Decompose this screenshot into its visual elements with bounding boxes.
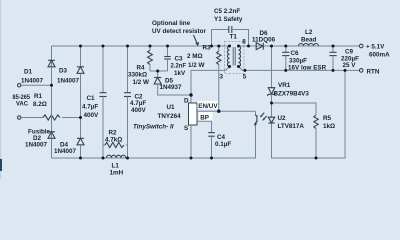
svg-text:8.2Ω: 8.2Ω [33,101,47,108]
wire: EN/UV line to optocoupler [197,110,256,112]
optocoupler U2 LED [268,103,274,123]
svg-text:1N4007: 1N4007 [54,148,77,155]
T1 secondary winding [239,46,241,66]
resistor R2 4.7k (parallel with L1) [103,130,128,158]
svg-text:Optional line: Optional line [152,20,191,27]
capacitor C5 2.2nF Y1 safety [212,8,249,46]
svg-text:D3: D3 [59,68,68,75]
svg-text:TNY264: TNY264 [158,113,182,120]
transformer T1 [191,33,247,95]
label 85-265 VAC [13,94,31,108]
svg-text:1N4007: 1N4007 [25,141,48,148]
inductor L1 1mH [107,155,126,176]
svg-text:330kΩ: 330kΩ [128,72,147,79]
resistor R3 2Mohm 1/2W (UV detect) [187,45,221,112]
T1 primary winding [227,46,229,66]
output terminal RTN [359,68,379,75]
svg-text:4.7µF: 4.7µF [82,104,98,111]
svg-text:EN/UV: EN/UV [198,103,218,110]
diode D5 1N4937 [154,71,191,95]
svg-text:R1: R1 [34,93,43,100]
capacitor C1 4.7uF 400V [82,46,107,158]
svg-text:U1: U1 [167,104,176,111]
svg-text:D: D [184,97,189,104]
capacitor C6 330uF 16V low ESR [282,46,326,72]
capacitor C4 0.1uF [208,133,231,158]
diode D4 1N4007 [54,118,84,159]
svg-text:400V: 400V [131,107,147,114]
svg-text:400V: 400V [84,112,100,119]
svg-text:1/2 W: 1/2 W [133,79,150,86]
svg-text:R5: R5 [323,115,332,122]
svg-text:1/2 W: 1/2 W [188,62,205,69]
svg-text:3: 3 [220,74,224,81]
IC U1 TinySwitch-II TNY264 [133,95,197,158]
svg-text:600mA: 600mA [369,52,390,59]
wire: secondary bottom rail [272,70,346,158]
svg-text:1mH: 1mH [110,170,124,177]
capacitor C9 220uF 25V [329,46,359,70]
svg-text:25 V: 25 V [343,62,357,69]
svg-text:C6: C6 [291,50,300,57]
svg-text:2.2nF: 2.2nF [171,62,187,69]
svg-text:1N4007: 1N4007 [21,77,44,84]
resistor R4 330k 1/2W [128,46,152,86]
svg-text:L1: L1 [112,162,120,169]
svg-text:0.1µF: 0.1µF [215,141,231,148]
diode D2 1N4007 [25,85,55,158]
wire: secondary output rail [239,45,360,47]
resistor R1 8.2ohm Fusible [28,93,60,135]
inductor L2 bead [299,29,319,46]
svg-text:5: 5 [243,74,247,81]
capacitor C3 2.2nF 1kV [164,46,186,77]
input terminal AC top [18,84,52,87]
wire: pin3 lead to drain [191,67,230,96]
wire: top DC+ rail (primary) [52,45,230,47]
light arrows [261,113,264,117]
svg-text:BZX79B4V3: BZX79B4V3 [274,90,310,97]
svg-text:C3: C3 [175,55,184,62]
svg-text:Y1 Safety: Y1 Safety [214,16,243,23]
svg-text:L2: L2 [305,29,313,36]
diode D3 1N4007 [57,46,84,118]
svg-text:R2: R2 [109,130,118,137]
svg-text:T1: T1 [230,33,238,40]
svg-text:U2: U2 [278,115,287,122]
wire: clamp junction bar R4-C3 [150,70,168,72]
diode D6 11DQ06 [252,30,276,49]
wire: primary bottom rail [52,46,256,158]
svg-text:330µF: 330µF [289,58,307,65]
svg-text:R3: R3 [203,45,212,52]
svg-text:1N4007: 1N4007 [57,77,80,84]
resistor R5 1k [272,103,336,158]
svg-text:11DQ06: 11DQ06 [252,36,276,43]
svg-text:1N4937: 1N4937 [160,84,183,91]
svg-text:BP: BP [200,115,209,122]
T1 core [232,47,234,66]
wire: BP line [197,121,212,132]
svg-text:UV detect resistor: UV detect resistor [152,28,206,35]
svg-text:C5 2.2nF: C5 2.2nF [214,8,240,15]
wire: pin5 lead to RTN rail [239,67,245,71]
optocoupler U2 phototransistor [254,111,304,158]
svg-text:Bead: Bead [301,36,317,43]
svg-text:R4: R4 [137,64,146,71]
svg-text:4.7kΩ: 4.7kΩ [105,137,122,144]
left edge artifact [0,0,2,179]
svg-text:C9: C9 [345,48,354,55]
svg-text:8: 8 [242,39,246,46]
U1 pin label BP [199,112,213,121]
svg-text:LTV817A: LTV817A [278,123,305,130]
svg-text:C4: C4 [217,134,226,141]
svg-text:TinySwitch- II: TinySwitch- II [133,123,174,130]
capacitor C2 4.7uF 400V [124,46,147,158]
svg-text:1kV: 1kV [174,70,186,77]
svg-text:1kΩ: 1kΩ [323,123,335,130]
svg-text:+ 5.1V: + 5.1V [366,44,385,51]
svg-text:VR1: VR1 [278,82,291,89]
note: optional line UV detect resistor [152,20,206,47]
svg-text:C1: C1 [87,95,96,102]
svg-text:S: S [184,125,188,132]
svg-text:D1: D1 [24,69,33,76]
svg-text:RTN: RTN [367,68,380,75]
input terminal AC bottom [18,116,81,119]
svg-text:VAC: VAC [16,100,28,107]
U1 pin label EN/UV [197,101,218,110]
zener VR1 BZX79B4V3 [267,46,309,103]
svg-text:16V low ESR: 16V low ESR [288,65,327,72]
wire: secondary RTN rail [245,69,359,71]
output terminal +5.1V [359,44,390,59]
diode D1 1N4007 [21,46,55,85]
svg-text:2 MΩ: 2 MΩ [187,53,203,60]
